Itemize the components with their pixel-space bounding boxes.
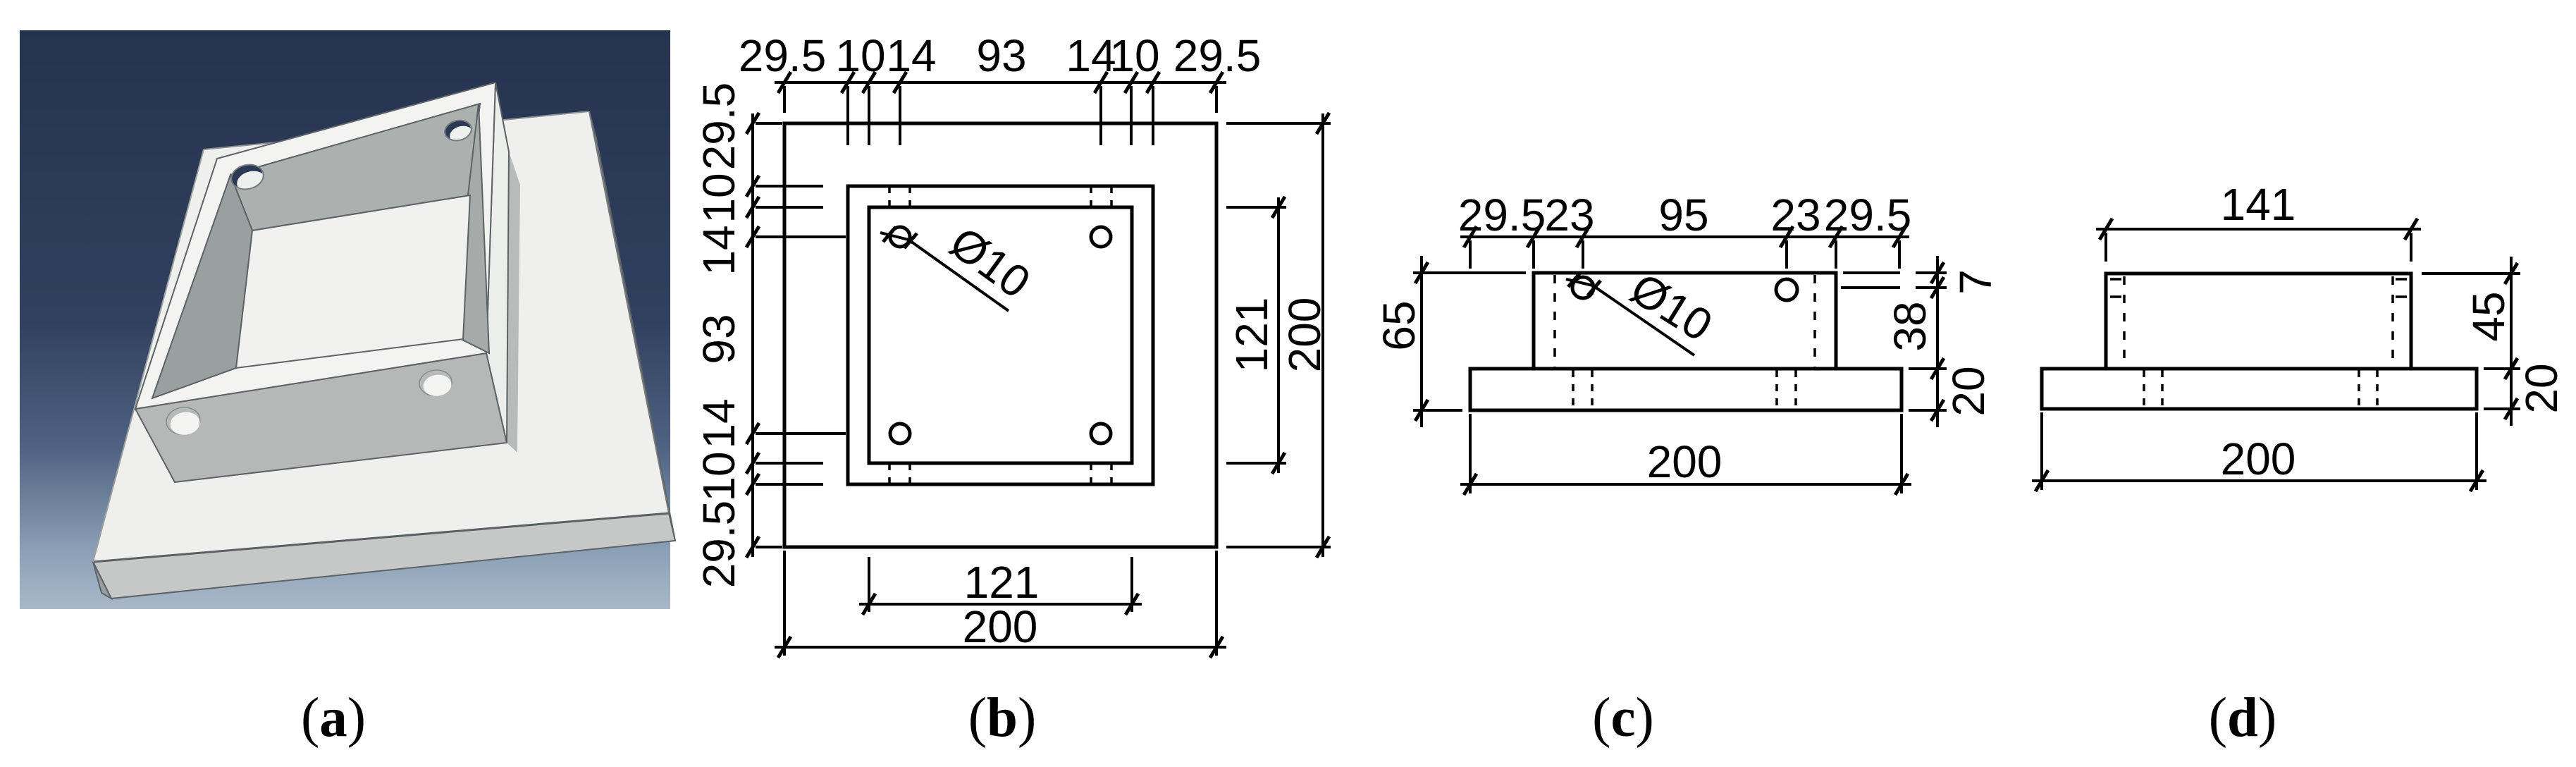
outer square 200x200 (784, 123, 1216, 547)
svg-text:29.5: 29.5 (694, 82, 744, 171)
hole SW (south wall) (165, 405, 202, 437)
svg-text:23: 23 (1770, 190, 1820, 240)
wall holes c (1572, 277, 1594, 298)
svg-text:93: 93 (976, 30, 1026, 81)
bottom dim 200 d (2032, 479, 2486, 482)
frame west inner wall (152, 175, 252, 398)
hidden inner wall lines c (1553, 275, 1556, 367)
hidden bolt holes in base c (1572, 370, 1574, 409)
svg-text:20: 20 (2516, 363, 2567, 413)
base plate south side face (93, 513, 675, 599)
svg-text:29.5: 29.5 (1173, 30, 1262, 81)
svg-text:93: 93 (694, 314, 744, 364)
frame east inner wall (461, 104, 489, 353)
base plate d (2042, 369, 2477, 409)
svg-text:29.5: 29.5 (1824, 190, 1912, 240)
svg-text:Ø10: Ø10 (941, 217, 1040, 308)
bottom dim 121 (859, 603, 1142, 606)
frame inner square (869, 207, 1132, 463)
hidden inner wall lines d (2123, 276, 2126, 367)
svg-text:200: 200 (1647, 436, 1723, 487)
svg-text:10: 10 (694, 173, 744, 223)
svg-text:10: 10 (835, 30, 885, 81)
svg-text:20: 20 (1943, 366, 1994, 416)
right dim 200 vertical (1321, 113, 1324, 557)
bolt holes (890, 227, 910, 247)
leader dia10 c (1566, 279, 1694, 355)
svg-text:23: 23 (1544, 190, 1594, 240)
svg-text:(b): (b) (968, 687, 1037, 749)
frame north inner wall (230, 104, 480, 231)
right dim 121 vertical (1277, 197, 1280, 473)
hidden hole lines top/bottom walls (888, 186, 891, 207)
svg-text:200: 200 (2221, 434, 2296, 484)
frame top face ring (135, 82, 495, 409)
svg-text:(a): (a) (301, 687, 366, 749)
svg-text:29.5: 29.5 (694, 501, 744, 589)
svg-text:10: 10 (694, 451, 744, 501)
hidden wall hole bores d (2110, 278, 2121, 281)
svg-text:(c): (c) (1592, 687, 1654, 749)
base plate west corner sliver (93, 562, 111, 599)
base plate c (1470, 369, 1902, 410)
frame south outer wall (135, 353, 507, 482)
svg-text:14: 14 (1066, 30, 1116, 81)
leader line dia10 (880, 233, 1009, 311)
svg-text:121: 121 (1226, 297, 1277, 373)
bottom dim 200 (775, 646, 1226, 649)
svg-text:95: 95 (1658, 190, 1708, 240)
svg-text:(d): (d) (2209, 687, 2277, 749)
svg-text:29.5: 29.5 (739, 30, 827, 81)
top dim 141 d (2096, 228, 2421, 231)
top dimension line b (775, 81, 1226, 84)
svg-text:14: 14 (886, 30, 936, 81)
svg-text:200: 200 (963, 601, 1038, 652)
svg-text:Ø10: Ø10 (1622, 263, 1721, 351)
svg-text:14: 14 (694, 225, 744, 275)
plate crease edges (93, 513, 669, 562)
frame block c (1534, 273, 1836, 369)
svg-text:121: 121 (964, 557, 1040, 608)
hole SE (south wall) (418, 368, 454, 398)
left dim 65 c (1420, 256, 1423, 427)
svg-text:38: 38 (1885, 301, 1935, 351)
right dims 45/20 d (2510, 257, 2513, 426)
frame block d (2106, 274, 2411, 369)
svg-text:7: 7 (1950, 269, 2001, 295)
shadow on plate along frame east edge (507, 152, 520, 453)
plate floor inside opening (236, 195, 470, 368)
svg-text:65: 65 (1374, 300, 1424, 350)
frame east outer wall (486, 82, 509, 443)
left dimension line b (751, 113, 754, 557)
top dimension line c (1460, 235, 1909, 238)
base plate east side face (589, 111, 675, 541)
hidden bolt holes in base d (2143, 370, 2145, 407)
svg-text:45: 45 (2463, 291, 2514, 341)
svg-text:14: 14 (694, 398, 744, 448)
bottom dim 200 c (1460, 483, 1911, 486)
svg-text:200: 200 (1279, 297, 1330, 373)
base plate top face (93, 111, 669, 562)
frame outer square (848, 186, 1153, 484)
svg-text:10: 10 (1109, 30, 1159, 81)
svg-text:141: 141 (2221, 179, 2296, 230)
svg-text:29.5: 29.5 (1458, 190, 1546, 240)
right dims 7/38/20 c (1936, 256, 1939, 427)
